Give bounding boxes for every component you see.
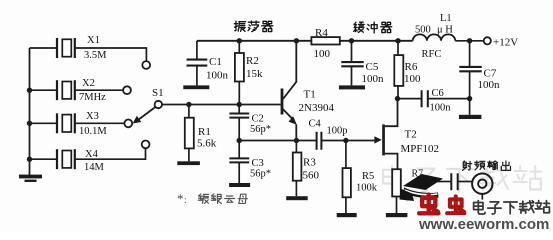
watermark 虫虫 red <box>419 195 438 214</box>
wire X2 to contact <box>75 89 123 91</box>
node rail-R6 <box>395 38 400 43</box>
svg-text:5.6k: 5.6k <box>197 138 217 150</box>
node C6-C7-gnd <box>467 96 472 101</box>
inductor L1 <box>413 34 456 40</box>
crystal X2 <box>30 80 75 100</box>
wire buffer supply rail <box>340 40 413 42</box>
svg-text:R5: R5 <box>362 171 374 182</box>
node gate-R5 <box>343 138 348 143</box>
ground (crystal bus) <box>19 175 42 179</box>
wire oscillator supply rail <box>197 40 312 42</box>
svg-text:C6: C6 <box>432 88 444 99</box>
resistor R3 <box>295 141 297 153</box>
node base-R1 <box>186 102 191 107</box>
capacitor C3 <box>238 141 240 159</box>
watermark graduation cap <box>400 174 444 201</box>
node bus-X2 <box>27 88 32 93</box>
crystal X3 <box>30 113 75 133</box>
node rail-R2 <box>237 38 242 43</box>
ground (R7) <box>386 213 408 217</box>
connector RF output <box>472 174 492 194</box>
svg-text:2N3904: 2N3904 <box>299 102 335 114</box>
label oscillator 振荡器 <box>234 21 273 32</box>
svg-text:MPF102: MPF102 <box>401 143 440 155</box>
transistor T1 <box>281 89 284 115</box>
svg-text:100: 100 <box>404 73 421 85</box>
svg-text:100n: 100n <box>478 79 501 91</box>
ground (R5) <box>337 213 357 217</box>
node rail-C7 <box>467 38 472 43</box>
switch contact X3 <box>124 120 132 128</box>
svg-text:56p*: 56p* <box>250 124 271 135</box>
ground (C5) <box>339 85 365 89</box>
ground (R1) <box>177 161 200 165</box>
node bus-X3 <box>27 121 32 126</box>
ground (C6/C7) <box>459 115 482 119</box>
node T2 drain <box>395 96 400 101</box>
svg-text:T2: T2 <box>405 129 417 141</box>
svg-text:100k: 100k <box>356 183 378 194</box>
wire crystal bus <box>29 48 31 176</box>
ghost watermark squiggle <box>403 192 418 202</box>
node base-R2-C2 <box>237 102 242 107</box>
capacitor C2 <box>238 105 240 114</box>
wire C7 to ground <box>469 99 471 115</box>
svg-text:15k: 15k <box>246 68 263 80</box>
watermark www.eeworm.com <box>419 216 549 233</box>
svg-text:R4: R4 <box>315 27 328 39</box>
node rail-C5 <box>349 38 354 43</box>
transistor T2 <box>382 124 385 155</box>
svg-text:7MHz: 7MHz <box>79 92 106 103</box>
svg-text::: : <box>184 195 187 206</box>
switch contact X1 <box>142 61 150 69</box>
terminal +12V <box>484 37 491 44</box>
svg-text:C2: C2 <box>252 114 264 125</box>
label RF output 射频输出 <box>463 161 511 170</box>
wire X4 to contact <box>75 148 146 159</box>
svg-text:S1: S1 <box>152 87 164 99</box>
svg-text:100n: 100n <box>206 70 229 82</box>
svg-text:R2: R2 <box>246 55 259 67</box>
resistor R5 <box>345 141 347 169</box>
svg-text:μ H: μ H <box>437 25 453 36</box>
svg-text:+12V: +12V <box>493 37 518 49</box>
watermark 电子下载站 <box>474 201 550 214</box>
wire X1 to contact <box>75 48 147 61</box>
resistor R7 (source) <box>392 169 401 196</box>
svg-text:100n: 100n <box>362 73 385 85</box>
crystal X4 <box>30 149 75 169</box>
svg-text:10.1M: 10.1M <box>79 126 107 137</box>
wire S1 to T1 base <box>162 104 281 106</box>
resistor R4 <box>311 37 339 44</box>
svg-text:560: 560 <box>303 170 320 182</box>
svg-text:100n: 100n <box>430 103 452 114</box>
svg-text:X1: X1 <box>87 35 100 46</box>
svg-text:T1: T1 <box>304 89 316 101</box>
svg-text:R3: R3 <box>303 157 316 169</box>
wire X3 to contact <box>75 122 125 124</box>
note silver mica 镀银云母 <box>198 194 247 203</box>
svg-text:C7: C7 <box>484 68 497 80</box>
svg-text:100p: 100p <box>327 126 348 137</box>
resistor R2 <box>238 41 240 53</box>
node C2-C3-emitter <box>237 138 242 143</box>
resistor R6 <box>397 41 399 55</box>
capacitor C4 <box>317 132 322 150</box>
ground (R3) <box>286 196 308 200</box>
ground (C3) <box>229 183 250 187</box>
svg-text:C3: C3 <box>252 158 264 169</box>
svg-text:*: * <box>177 191 184 206</box>
svg-text:R1: R1 <box>198 126 211 138</box>
svg-text:500: 500 <box>415 25 431 36</box>
svg-text:X3: X3 <box>86 111 99 122</box>
svg-text:C5: C5 <box>366 61 379 73</box>
wire C4 to T2 gate <box>321 140 377 142</box>
capacitor C6 <box>398 98 422 100</box>
ground (C1) <box>183 85 209 89</box>
node rail-collector <box>294 38 299 43</box>
svg-text:C4: C4 <box>309 119 322 130</box>
node bus-X4 <box>27 157 32 162</box>
ghost watermark 电子下载站 (light) <box>383 166 541 192</box>
svg-text:L1: L1 <box>440 13 452 24</box>
svg-text:C1: C1 <box>209 56 222 68</box>
svg-text:X2: X2 <box>82 78 95 89</box>
capacitor C1 <box>196 41 198 59</box>
wire emitter to C4 <box>239 140 316 142</box>
crystal X1 <box>30 38 75 58</box>
svg-text:56p*: 56p* <box>250 169 271 180</box>
svg-text:3.5M: 3.5M <box>84 50 107 61</box>
capacitor C5 <box>351 41 353 62</box>
resistor R1 <box>188 105 190 118</box>
svg-text:14M: 14M <box>84 162 105 173</box>
svg-text:RFC: RFC <box>422 49 442 60</box>
svg-text:100: 100 <box>314 48 331 60</box>
svg-text:R6: R6 <box>405 61 418 73</box>
switch contact X4 <box>142 141 150 149</box>
switch S1 <box>155 101 162 108</box>
capacitor C8 (output coupling) <box>437 181 451 183</box>
switch contact X2 <box>123 86 131 94</box>
node emitter-R3 <box>294 138 299 143</box>
wire L1 to +12V <box>455 40 483 42</box>
capacitor C7 <box>469 41 471 67</box>
label buffer 缓冲器 <box>354 22 392 33</box>
